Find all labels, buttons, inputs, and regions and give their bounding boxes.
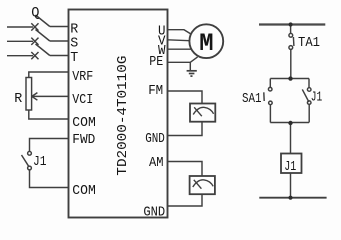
svg-text:COM: COM (72, 115, 96, 131)
svg-text:Q: Q (31, 5, 39, 21)
svg-text:GND: GND (145, 131, 165, 147)
svg-text:AM: AM (149, 155, 164, 171)
svg-text:J1: J1 (33, 154, 47, 170)
svg-text:FM: FM (148, 83, 163, 99)
svg-text:COM: COM (72, 183, 96, 199)
svg-text:TA1: TA1 (298, 35, 320, 51)
svg-text:J1: J1 (284, 159, 296, 175)
svg-text:J1: J1 (311, 90, 323, 106)
svg-text:GND: GND (143, 204, 165, 220)
svg-text:T: T (70, 50, 78, 66)
svg-text:TD2000-4T0110G: TD2000-4T0110G (115, 56, 131, 176)
svg-text:PE: PE (149, 54, 163, 70)
svg-text:R: R (14, 91, 23, 107)
svg-text:M: M (199, 29, 213, 58)
svg-text:FWD: FWD (72, 132, 95, 148)
svg-text:SA1: SA1 (242, 91, 262, 107)
svg-text:VCI: VCI (72, 92, 93, 108)
svg-text:VRF: VRF (72, 69, 93, 85)
